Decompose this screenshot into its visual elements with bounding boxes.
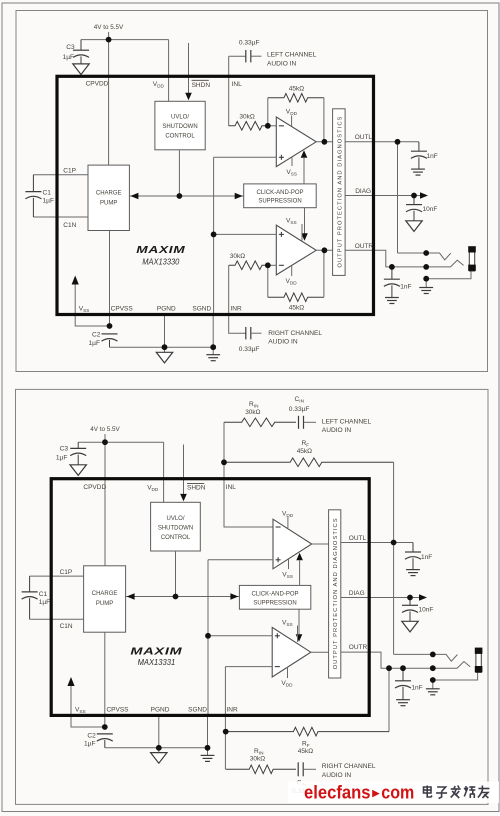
- wire UVLO to control bus (b): [175, 551, 177, 597]
- node enable arrow U2: [301, 233, 308, 241]
- capacitor CIN right (b): [298, 762, 303, 776]
- wire audio-in lead (left b): [304, 421, 317, 423]
- capacitor 1nF (OUTR b): [395, 681, 411, 688]
- wire VDD supply: [168, 40, 170, 102]
- svg-text:C1N: C1N: [63, 222, 76, 229]
- capacitor 10nF lead (b): [409, 598, 411, 606]
- wire U2 inverting input (b): [225, 666, 272, 668]
- wire U1 noninverting input (b): [208, 559, 273, 561]
- capacitor C2 (b): [97, 734, 113, 741]
- wire UVLO to control bus: [178, 150, 180, 196]
- svg-text:1µF: 1µF: [39, 599, 51, 606]
- wire SHDN input (b): [183, 445, 185, 495]
- capacitor 10nF (DIAG b): [402, 605, 418, 612]
- svg-text:C2: C2: [92, 332, 101, 339]
- node DIAG arrow: [420, 192, 428, 199]
- capacitor 1nF (OUTL): [411, 151, 427, 158]
- node INL/RF junction (b): [221, 459, 227, 465]
- wire C1P: [33, 174, 88, 176]
- node U2 noninverting junction: [211, 232, 217, 238]
- IC boundary MAX13331: [51, 479, 369, 716]
- wire DIAG (b): [341, 597, 419, 599]
- svg-text:1µF: 1µF: [43, 198, 55, 205]
- capacitor 10nF (DIAG): [406, 205, 422, 212]
- svg-text:0.33µF: 0.33µF: [289, 406, 310, 413]
- figure frame (top circuit): [16, 11, 488, 372]
- node arrow into charge pump: [130, 193, 138, 200]
- node SHDN arrow: [185, 93, 192, 101]
- watermark char shao: [464, 786, 475, 798]
- svg-text:1nF: 1nF: [427, 153, 438, 160]
- svg-text:INL: INL: [232, 81, 243, 88]
- node VSS arrow (b): [67, 677, 74, 686]
- node enable arrow U1 (b): [296, 553, 303, 561]
- wire jack sleeve: [426, 271, 471, 279]
- capacitor C1 upper lead: [32, 175, 34, 192]
- wire C1P (b): [30, 575, 84, 577]
- svg-text:CPVSS: CPVSS: [106, 706, 129, 713]
- wire feedback left riser (U2): [267, 265, 269, 297]
- capacitor 1nF OUTL lead: [418, 142, 420, 151]
- wire CPVDD supply: [108, 40, 110, 166]
- watermark char zi: [436, 787, 447, 799]
- node supply junction (b): [102, 439, 108, 445]
- node OUTR junction: [389, 264, 395, 270]
- svg-text:CPVDD: CPVDD: [83, 484, 106, 491]
- op-amp U1 (left channel b): [273, 519, 312, 569]
- node SHDN arrow (b): [180, 494, 187, 502]
- svg-text:1nF: 1nF: [411, 685, 422, 692]
- wire U2 noninverting input (b): [208, 635, 272, 637]
- watermark char fa: [451, 786, 461, 799]
- node jack sleeve (b): [430, 677, 436, 683]
- wire enable U1 (b): [299, 561, 301, 586]
- ground (OUTR cap b): [396, 700, 410, 706]
- wire INL vertical: [228, 56, 230, 126]
- wire SGND (b): [207, 714, 209, 755]
- wire supply rail stub: [108, 32, 110, 40]
- ground (jack sleeve b): [426, 689, 440, 695]
- block click-and-pop suppression (b): [239, 585, 310, 609]
- node OUTL junction: [395, 139, 401, 145]
- wire ground return: [110, 346, 214, 348]
- svg-text:MAXIM: MAXIM: [136, 244, 185, 256]
- wire DIAG: [345, 195, 420, 197]
- wire RF to OUTL riser (b): [393, 462, 395, 654]
- op-amp U2 (right channel): [276, 225, 316, 275]
- node jack tip (b): [430, 652, 436, 658]
- watermark red marker: [372, 790, 380, 798]
- ground (DIAG triangle): [406, 221, 422, 232]
- node PGND junction (b): [156, 745, 162, 751]
- wire INL vertical (b): [224, 422, 273, 527]
- node VSS/CPVSS junction (b): [102, 724, 108, 730]
- svg-text:INL: INL: [226, 484, 237, 491]
- op-amp U2 VSS pin stub (b): [297, 626, 299, 643]
- op-amp U2 minus sign: [279, 264, 284, 266]
- capacitor C3 (b): [70, 448, 86, 455]
- wire jack sleeve (b): [433, 672, 478, 680]
- node arrow into charge pump (b): [127, 593, 135, 600]
- svg-text:1nF: 1nF: [400, 283, 411, 290]
- node U1 output junction: [322, 139, 328, 145]
- capacitor C3 lower lead (b): [77, 455, 79, 465]
- node U2 noninverting junction (b): [205, 633, 211, 639]
- wire INR pin (b): [224, 667, 226, 770]
- op-amp U2 VDD pin stub (b): [287, 668, 289, 678]
- watermark char dian: [424, 786, 433, 798]
- wire jack tip contact (b): [394, 654, 458, 661]
- capacitor C1 lower lead (b): [29, 598, 31, 619]
- svg-text:OUTPUT PROTECTION AND DIAGNOST: OUTPUT PROTECTION AND DIAGNOSTICS: [333, 518, 339, 669]
- capacitor C2 lower lead (b): [104, 740, 106, 748]
- svg-text:OUTL: OUTL: [355, 134, 373, 141]
- line SHDN overbar: [192, 79, 209, 81]
- headphone jack body (b): [475, 648, 483, 673]
- capacitor C3 lower lead: [80, 56, 82, 64]
- wire PGND (b): [158, 714, 160, 753]
- headphone jack body: [468, 246, 476, 271]
- capacitor C3 lead (b): [77, 442, 79, 448]
- block output protection and diagnostics (b): [329, 510, 341, 678]
- ground (DIAG triangle b): [402, 621, 418, 632]
- capacitor 1nF OUTR lead (b): [402, 668, 404, 681]
- block charge pump (b): [84, 566, 126, 632]
- svg-text:DIAG: DIAG: [349, 590, 365, 597]
- op-amp U2 plus sign (b): [275, 633, 280, 638]
- node U2 inverting junction: [265, 262, 271, 268]
- figure frame (bottom circuit): [16, 389, 489, 804]
- node control bus junction (b): [173, 594, 179, 600]
- block UVLO/shutdown control (b): [151, 502, 201, 551]
- svg-text:OUTPUT PROTECTION AND DIAGNOST: OUTPUT PROTECTION AND DIAGNOSTICS: [337, 116, 343, 267]
- svg-text:INR: INR: [231, 305, 243, 312]
- svg-text:PGND: PGND: [157, 305, 176, 312]
- watermark char you: [478, 786, 490, 799]
- wire jack sleeve ground stem: [425, 279, 427, 288]
- node PGND junction: [162, 344, 168, 350]
- svg-text:4V to 5.5V: 4V to 5.5V: [90, 426, 120, 433]
- resistor 30k (left input): [229, 122, 268, 131]
- op-amp U1 minus sign (b): [276, 526, 281, 528]
- block charge pump: [88, 165, 129, 230]
- wire U2 inverting input: [268, 264, 277, 266]
- wire supply rail: [81, 39, 169, 41]
- block output protection and diagnostics: [333, 109, 346, 276]
- wire enable U2 (b): [298, 609, 300, 634]
- op-amp U2 plus sign: [279, 232, 284, 237]
- wire C1N: [33, 216, 88, 218]
- node U2 output junction: [322, 247, 328, 253]
- svg-text:30kΩ: 30kΩ: [230, 253, 245, 260]
- svg-text:C2: C2: [87, 732, 96, 739]
- resistor RF 45k (right b): [226, 727, 389, 736]
- wire supply rail (b): [78, 441, 163, 443]
- ground (C3 triangle b): [70, 465, 86, 476]
- svg-text:30kΩ: 30kΩ: [250, 755, 265, 762]
- svg-text:C1P: C1P: [60, 569, 73, 576]
- svg-text:MAX13330: MAX13330: [142, 258, 180, 267]
- node OUTR/RF junction (b): [386, 665, 392, 671]
- node arrow into click-and-pop (b): [230, 593, 238, 600]
- node OUTR cap junction (b): [400, 665, 406, 671]
- capacitor 1nF OUTL lead (b): [412, 543, 414, 553]
- capacitor 0.33uF left input: [246, 50, 251, 62]
- op-amp U1 VDD pin stub: [291, 116, 293, 127]
- capacitor 1nF OUTR lead: [391, 267, 393, 279]
- svg-text:1nF: 1nF: [421, 554, 432, 561]
- node arrow into click-and-pop: [235, 193, 243, 200]
- wire feedback right riser (U1): [323, 98, 325, 142]
- wire ground return (b): [105, 747, 208, 749]
- op-amp U1 (left channel): [276, 117, 316, 167]
- svg-text:1µF: 1µF: [89, 340, 101, 347]
- op-amp U1 plus sign: [279, 155, 284, 160]
- wire OUTL: [345, 141, 419, 143]
- wire OUTR (b): [341, 652, 433, 668]
- capacitor C1 (b): [22, 592, 38, 599]
- wire signal-ground bus: [213, 157, 215, 313]
- svg-text:SGND: SGND: [188, 706, 207, 713]
- svg-text:PGND: PGND: [151, 706, 170, 713]
- svg-text:SHDN: SHDN: [187, 484, 206, 491]
- node VSS arrow: [72, 276, 79, 285]
- wire jack tip contact: [398, 253, 451, 260]
- wire CPVSS (b): [104, 632, 106, 727]
- IC boundary MAX13330: [57, 76, 374, 314]
- wire U2 output (b): [311, 651, 329, 653]
- svg-text:0.33µF: 0.33µF: [239, 346, 260, 353]
- svg-text:SHDN: SHDN: [192, 82, 211, 89]
- node SGND junction: [210, 344, 216, 350]
- node U1 inverting junction: [265, 123, 271, 129]
- svg-text:C1: C1: [43, 189, 52, 196]
- watermark background band: [288, 782, 499, 804]
- node control bus junction: [177, 193, 183, 199]
- capacitor C1: [25, 192, 41, 199]
- capacitor C2 lower lead: [109, 340, 111, 347]
- wire jack ring contact: [426, 260, 463, 267]
- capacitor 10nF lower lead: [413, 211, 415, 221]
- wire VDD supply (b): [163, 442, 165, 502]
- svg-text:OUTL: OUTL: [349, 535, 367, 542]
- resistor RIN 30k (right b): [226, 765, 296, 774]
- op-amp U1 minus sign: [279, 125, 284, 127]
- wire op-amp U1 inverting input: [268, 125, 277, 127]
- ground (SGND earth): [206, 355, 220, 361]
- op-amp U2 VSS pin stub: [301, 224, 303, 241]
- ground (OUTR cap): [385, 298, 399, 304]
- wire CPVDD supply (b): [104, 442, 106, 566]
- capacitor CIN left (b): [299, 416, 304, 429]
- op-amp U1 plus sign (b): [276, 557, 281, 562]
- capacitor 10nF lead: [413, 196, 415, 205]
- wire U1 noninverting input: [214, 156, 277, 158]
- svg-text:C1: C1: [39, 591, 48, 598]
- wire U1 output: [316, 141, 332, 143]
- capacitor 0.33uF right input: [246, 327, 251, 339]
- resistor RF 45k (left b): [224, 458, 394, 467]
- resistor 45k feedback (U2): [268, 293, 324, 302]
- wire supply rail stub (b): [104, 434, 106, 442]
- svg-text:CPVSS: CPVSS: [111, 305, 134, 312]
- wire INR pin: [229, 265, 246, 333]
- node jack ring (b): [430, 665, 436, 671]
- capacitor C3: [73, 50, 89, 57]
- resistor 45k feedback (U1): [268, 94, 324, 103]
- svg-text:45kΩ: 45kΩ: [289, 85, 304, 92]
- wire OUTR: [345, 250, 426, 267]
- node SGND junction (b): [205, 745, 211, 751]
- wire jack sleeve ground stem (b): [432, 680, 434, 689]
- line SHDN overbar (b): [187, 482, 204, 484]
- op-amp U1 VSS pin stub (b): [288, 560, 290, 570]
- node supply junction: [106, 37, 112, 43]
- svg-text:DIAG: DIAG: [355, 188, 371, 195]
- wire OUTL to jack: [397, 142, 399, 253]
- node enable arrow U1: [301, 150, 308, 158]
- svg-text:MAX13331: MAX13331: [138, 658, 176, 667]
- svg-text:10nF: 10nF: [423, 206, 438, 213]
- resistor RIN 30k (left b): [224, 418, 296, 427]
- ground (PGND triangle): [156, 352, 172, 363]
- node jack sleeve: [423, 276, 429, 282]
- svg-text:OUTR: OUTR: [349, 644, 368, 651]
- svg-text:C1N: C1N: [60, 623, 73, 630]
- wire SGND: [212, 313, 214, 355]
- capacitor 1nF (OUTR): [384, 279, 400, 286]
- svg-text:0.33µF: 0.33µF: [239, 39, 260, 46]
- wire U2 noninverting input: [214, 233, 277, 235]
- wire PGND: [164, 313, 166, 352]
- wire feedback left riser (U1): [267, 98, 269, 126]
- svg-text:45kΩ: 45kΩ: [297, 448, 312, 455]
- op-amp U2 minus sign (b): [275, 666, 280, 668]
- wire enable U2: [304, 208, 306, 234]
- block UVLO/shutdown control: [155, 101, 205, 150]
- node jack ring: [423, 264, 429, 270]
- ground (OUTL cap b): [406, 570, 420, 576]
- wire OUTL (b): [341, 542, 413, 544]
- svg-text:CPVDD: CPVDD: [86, 81, 109, 88]
- wire SHDN input: [188, 43, 190, 93]
- wire audio-in lead (left): [251, 55, 262, 57]
- node INR/RF junction (b): [223, 729, 229, 735]
- svg-text:INR: INR: [227, 706, 239, 713]
- resistor 30k (right input): [229, 261, 268, 270]
- svg-text:elecfans: elecfans: [304, 782, 371, 803]
- svg-text:4V to 5.5V: 4V to 5.5V: [94, 24, 124, 31]
- wire audio-in lead (right): [251, 332, 262, 334]
- wire charge-pump to click-pop bus (b): [126, 596, 240, 598]
- wire VSS pin: [75, 284, 109, 326]
- wire audio-in lead (right b): [303, 768, 316, 770]
- wire C1N (b): [30, 618, 84, 620]
- capacitor C1 lower lead: [32, 198, 34, 217]
- ground (OUTL cap): [411, 169, 425, 175]
- svg-text:30kΩ: 30kΩ: [245, 409, 260, 416]
- node jack tip: [423, 250, 429, 256]
- wire enable U1: [303, 158, 305, 184]
- capacitor 1nF OUTR lower lead (b): [402, 687, 404, 700]
- wire INL coupling: [229, 55, 246, 57]
- svg-text:1µF: 1µF: [84, 741, 96, 748]
- capacitor 1nF OUTL lower lead (b): [412, 558, 414, 569]
- svg-text:30kΩ: 30kΩ: [239, 113, 254, 120]
- wire feedback right riser (U2): [323, 250, 325, 297]
- node DIAG junction (b): [407, 595, 413, 601]
- svg-text:C3: C3: [60, 445, 69, 452]
- node DIAG junction: [411, 193, 417, 199]
- ground (C3 triangle): [73, 64, 89, 75]
- svg-text:45kΩ: 45kΩ: [289, 304, 304, 311]
- op-amp U2 VDD pin stub: [291, 266, 293, 276]
- svg-text:OUTR: OUTR: [355, 243, 374, 250]
- wire CPVSS: [109, 231, 111, 327]
- ground (SGND earth b): [201, 755, 215, 761]
- wire VSS pin (b): [71, 686, 105, 728]
- svg-text:1µF: 1µF: [56, 454, 68, 461]
- op-amp U1 VDD pin stub (b): [287, 517, 289, 528]
- svg-text:C1P: C1P: [63, 167, 76, 174]
- svg-text:MAXIM: MAXIM: [130, 646, 182, 658]
- op-amp U1 VSS pin stub: [291, 157, 293, 166]
- wire RF tap riser (b): [388, 668, 390, 731]
- svg-text:C3: C3: [66, 44, 75, 51]
- capacitor 10nF lower lead (b): [409, 612, 411, 622]
- block click-and-pop suppression: [244, 184, 317, 208]
- node OUTL junction (b): [391, 540, 397, 546]
- svg-text:SGND: SGND: [192, 305, 211, 312]
- wire U1 output (b): [312, 543, 329, 545]
- capacitor 1nF (OUTL b): [405, 552, 421, 559]
- node enable arrow U2 (b): [296, 634, 303, 642]
- svg-text:45kΩ: 45kΩ: [298, 748, 313, 755]
- wire charge-pump to click-pop bus: [129, 195, 243, 197]
- wire signal-ground bus (b): [207, 560, 209, 714]
- svg-text:10nF: 10nF: [419, 607, 434, 614]
- svg-text:1µF: 1µF: [63, 54, 75, 61]
- capacitor C2: [102, 334, 118, 341]
- ground (PGND triangle b): [151, 753, 167, 764]
- node DIAG arrow (b): [419, 594, 427, 601]
- node VSS/CPVSS junction: [107, 323, 113, 329]
- svg-text:com: com: [381, 782, 414, 803]
- capacitor 1nF OUTR lower lead: [391, 285, 393, 297]
- capacitor 1nF OUTL lower lead: [418, 157, 420, 169]
- wire jack ring contact (b): [433, 662, 470, 669]
- wire U2 output: [316, 249, 332, 251]
- op-amp U2 (right channel b): [272, 627, 311, 677]
- capacitor C1 upper lead (b): [29, 576, 31, 592]
- capacitor C3 lead: [80, 40, 82, 51]
- ground (jack sleeve): [419, 288, 433, 294]
